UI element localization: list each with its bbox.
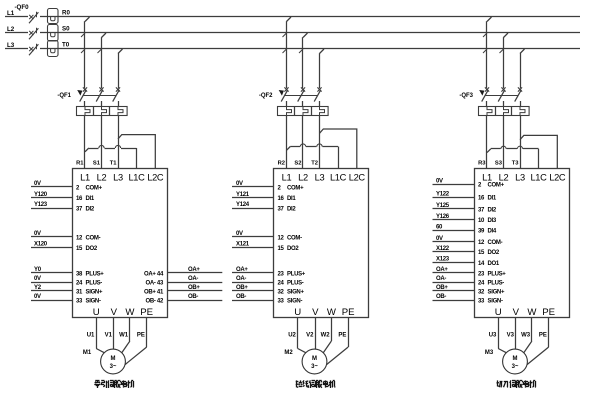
- svg-text:U3: U3: [489, 333, 497, 339]
- svg-text:L1: L1: [482, 173, 492, 183]
- svg-text:DI1: DI1: [287, 196, 296, 202]
- svg-text:COM-: COM-: [488, 240, 503, 246]
- svg-text:L1: L1: [80, 173, 90, 183]
- svg-text:U2: U2: [288, 333, 296, 339]
- svg-text:32: 32: [478, 289, 485, 295]
- svg-text:3~: 3~: [110, 364, 117, 370]
- svg-text:X120: X120: [34, 242, 48, 248]
- svg-text:V: V: [312, 307, 319, 318]
- svg-text:L1C: L1C: [330, 173, 347, 183]
- svg-text:L2C: L2C: [147, 173, 164, 183]
- svg-text:38: 38: [76, 271, 83, 277]
- svg-text:L1: L1: [282, 173, 292, 183]
- svg-text:T3: T3: [512, 161, 520, 167]
- svg-text:L2: L2: [298, 173, 308, 183]
- svg-text:OA+: OA+: [436, 267, 448, 273]
- svg-text:-QF2: -QF2: [259, 93, 273, 99]
- svg-text:S0: S0: [62, 26, 70, 33]
- svg-text:3~: 3~: [512, 364, 519, 370]
- svg-text:W3: W3: [521, 333, 531, 339]
- svg-text:32: 32: [278, 289, 285, 295]
- svg-text:0V: 0V: [436, 236, 443, 242]
- svg-text:16: 16: [478, 196, 485, 202]
- svg-text:OA+: OA+: [188, 267, 200, 273]
- svg-text:0V: 0V: [34, 276, 41, 282]
- svg-text:3~: 3~: [311, 364, 318, 370]
- svg-text:U: U: [294, 307, 301, 318]
- svg-text:M: M: [312, 356, 317, 362]
- svg-text:COM+: COM+: [86, 185, 103, 191]
- svg-text:T1: T1: [110, 161, 118, 167]
- svg-text:U: U: [495, 307, 502, 318]
- svg-text:L1C: L1C: [128, 173, 145, 183]
- svg-text:M1: M1: [83, 350, 92, 356]
- svg-text:S1: S1: [93, 161, 101, 167]
- svg-text:SIGN-: SIGN-: [488, 298, 503, 304]
- svg-text:R0: R0: [62, 10, 70, 17]
- svg-text:OB+: OB+: [436, 285, 448, 291]
- svg-text:0V: 0V: [236, 181, 243, 187]
- svg-text:COM-: COM-: [86, 235, 101, 241]
- svg-text:L3: L3: [7, 42, 15, 49]
- svg-text:-QF1: -QF1: [57, 93, 71, 99]
- svg-text:Y2: Y2: [34, 285, 42, 291]
- svg-text:L1C: L1C: [530, 173, 547, 183]
- svg-text:W1: W1: [119, 333, 129, 339]
- svg-text:0V: 0V: [436, 179, 443, 185]
- svg-text:DO1: DO1: [488, 261, 500, 267]
- svg-text:PLUS-: PLUS-: [488, 280, 505, 286]
- svg-text:12: 12: [478, 240, 485, 246]
- svg-text:33: 33: [76, 298, 83, 304]
- svg-text:SIGN-: SIGN-: [86, 298, 101, 304]
- svg-text:PLUS+: PLUS+: [86, 271, 105, 277]
- svg-text:16: 16: [76, 196, 83, 202]
- svg-text:OB-: OB-: [436, 294, 446, 300]
- svg-text:L3: L3: [515, 173, 525, 183]
- svg-text:60: 60: [436, 225, 443, 231]
- svg-text:24: 24: [278, 280, 285, 286]
- svg-text:Y125: Y125: [436, 203, 450, 209]
- svg-text:12: 12: [76, 235, 83, 241]
- svg-text:W: W: [327, 307, 337, 318]
- svg-text:SIGN+: SIGN+: [488, 289, 505, 295]
- svg-text:L2: L2: [499, 173, 509, 183]
- svg-text:R3: R3: [478, 161, 486, 167]
- svg-text:12: 12: [278, 235, 285, 241]
- svg-text:X122: X122: [436, 246, 450, 252]
- svg-text:OA- 43: OA- 43: [145, 280, 164, 286]
- svg-text:PE: PE: [539, 333, 547, 339]
- svg-text:OB-: OB-: [188, 294, 198, 300]
- svg-text:Y123: Y123: [34, 202, 48, 208]
- svg-text:X123: X123: [436, 257, 450, 263]
- svg-text:23: 23: [278, 271, 285, 277]
- svg-text:Y121: Y121: [236, 192, 250, 198]
- svg-text:0V: 0V: [34, 294, 41, 300]
- svg-text:24: 24: [76, 280, 83, 286]
- svg-text:T0: T0: [62, 42, 70, 49]
- svg-text:COM-: COM-: [287, 235, 302, 241]
- svg-text:W2: W2: [321, 333, 331, 339]
- svg-text:M3: M3: [485, 350, 494, 356]
- svg-text:DI3: DI3: [488, 218, 497, 224]
- svg-text:L3: L3: [315, 173, 325, 183]
- svg-text:37: 37: [478, 207, 485, 213]
- svg-text:DO2: DO2: [86, 246, 98, 252]
- svg-text:COM+: COM+: [488, 183, 505, 189]
- svg-text:OA-: OA-: [436, 276, 446, 282]
- svg-text:OA-: OA-: [188, 276, 198, 282]
- svg-text:SIGN+: SIGN+: [86, 289, 103, 295]
- svg-text:S3: S3: [495, 161, 503, 167]
- svg-text:DI2: DI2: [287, 206, 296, 212]
- svg-text:V: V: [111, 307, 118, 318]
- svg-text:L2: L2: [97, 173, 107, 183]
- svg-text:DI2: DI2: [488, 207, 497, 213]
- svg-text:PLUS+: PLUS+: [287, 271, 306, 277]
- svg-text:PLUS+: PLUS+: [488, 271, 507, 277]
- svg-text:0V: 0V: [34, 181, 41, 187]
- svg-text:U: U: [93, 307, 100, 318]
- svg-text:OB+: OB+: [236, 285, 248, 291]
- svg-text:OA+: OA+: [236, 267, 248, 273]
- svg-text:SIGN+: SIGN+: [287, 289, 304, 295]
- svg-text:16: 16: [278, 196, 285, 202]
- svg-text:S2: S2: [294, 161, 301, 167]
- svg-text:L3: L3: [113, 173, 123, 183]
- svg-text:-QF3: -QF3: [459, 93, 473, 99]
- svg-text:37: 37: [76, 206, 83, 212]
- svg-text:DO2: DO2: [488, 250, 500, 256]
- svg-text:M: M: [111, 356, 116, 362]
- svg-text:OB-: OB-: [236, 294, 246, 300]
- svg-text:R2: R2: [278, 161, 285, 167]
- svg-text:23: 23: [478, 271, 485, 277]
- svg-text:14: 14: [478, 261, 485, 267]
- svg-text:V2: V2: [306, 333, 314, 339]
- svg-text:PE: PE: [342, 307, 355, 318]
- svg-text:0V: 0V: [34, 231, 41, 237]
- svg-text:T2: T2: [311, 161, 318, 167]
- svg-text:PLUS-: PLUS-: [86, 280, 103, 286]
- svg-text:DI1: DI1: [488, 196, 497, 202]
- svg-text:L2: L2: [7, 26, 15, 33]
- svg-text:COM+: COM+: [287, 185, 304, 191]
- svg-text:OB+ 41: OB+ 41: [144, 289, 164, 295]
- svg-text:W: W: [125, 307, 135, 318]
- svg-text:X121: X121: [236, 242, 250, 248]
- svg-text:PE: PE: [542, 307, 555, 318]
- svg-text:OB- 42: OB- 42: [145, 298, 164, 304]
- svg-text:OA+ 44: OA+ 44: [144, 271, 164, 277]
- svg-text:L2C: L2C: [549, 173, 566, 183]
- svg-text:V: V: [513, 307, 520, 318]
- svg-text:V1: V1: [105, 333, 113, 339]
- svg-text:DI1: DI1: [86, 196, 95, 202]
- svg-text:Y126: Y126: [436, 214, 450, 220]
- svg-text:Y124: Y124: [236, 202, 250, 208]
- svg-text:Y120: Y120: [34, 192, 48, 198]
- svg-text:33: 33: [478, 298, 485, 304]
- svg-text:L2C: L2C: [349, 173, 366, 183]
- svg-text:DO2: DO2: [287, 246, 299, 252]
- svg-text:0V: 0V: [236, 231, 243, 237]
- svg-text:U1: U1: [87, 333, 95, 339]
- svg-text:31: 31: [76, 289, 83, 295]
- svg-text:39: 39: [478, 229, 485, 235]
- svg-text:L1: L1: [7, 10, 15, 17]
- svg-text:PE: PE: [140, 307, 153, 318]
- svg-text:M: M: [513, 356, 518, 362]
- svg-text:37: 37: [278, 206, 285, 212]
- svg-text:PE: PE: [338, 333, 346, 339]
- svg-text:PE: PE: [137, 333, 145, 339]
- svg-text:15: 15: [478, 250, 485, 256]
- svg-text:PLUS-: PLUS-: [287, 280, 304, 286]
- svg-text:DI2: DI2: [86, 206, 95, 212]
- svg-text:10: 10: [478, 218, 485, 224]
- svg-text:SIGN-: SIGN-: [287, 298, 302, 304]
- svg-text:Y0: Y0: [34, 267, 42, 273]
- svg-text:-QF0: -QF0: [15, 4, 30, 11]
- svg-text:33: 33: [278, 298, 285, 304]
- svg-text:OB+: OB+: [188, 285, 200, 291]
- svg-text:R1: R1: [76, 161, 84, 167]
- svg-text:OA-: OA-: [236, 276, 246, 282]
- svg-text:15: 15: [76, 246, 83, 252]
- svg-text:DI4: DI4: [488, 229, 497, 235]
- svg-text:15: 15: [278, 246, 285, 252]
- svg-text:V3: V3: [507, 333, 515, 339]
- svg-text:W: W: [527, 307, 537, 318]
- svg-text:24: 24: [478, 280, 485, 286]
- svg-text:Y122: Y122: [436, 191, 450, 197]
- svg-text:M2: M2: [284, 350, 293, 356]
